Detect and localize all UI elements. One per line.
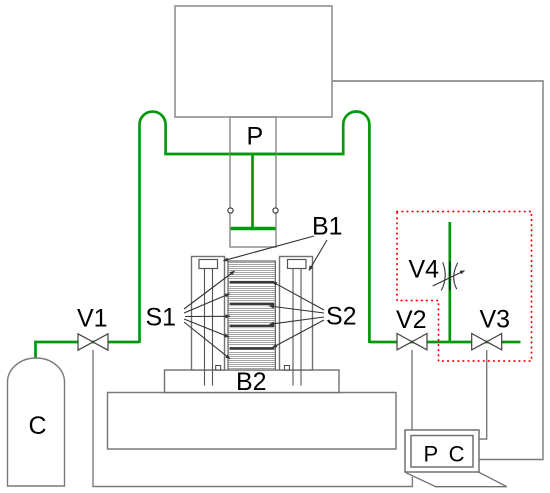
svg-text:S2: S2 [326,303,357,331]
svg-text:P: P [247,122,264,150]
svg-text:V1: V1 [77,305,108,333]
svg-text:S1: S1 [146,304,177,332]
svg-text:V2: V2 [396,306,427,334]
svg-text:B1: B1 [312,213,343,241]
svg-text:V4: V4 [409,256,440,284]
svg-text:PC: PC [424,442,476,467]
svg-text:V3: V3 [480,306,511,334]
svg-text:B2: B2 [236,368,267,396]
svg-text:C: C [29,412,47,440]
